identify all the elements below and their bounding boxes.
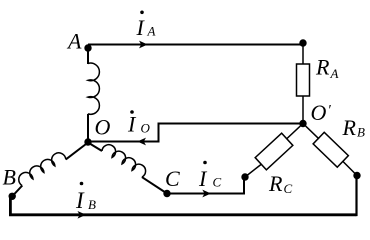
coil (winding) phase A xyxy=(88,63,99,114)
node O xyxy=(84,138,91,145)
svg-text:O: O xyxy=(311,100,327,125)
coil (winding) phase C with stubs xyxy=(88,143,167,194)
label R_B xyxy=(342,115,366,140)
svg-text:A: A xyxy=(66,29,82,54)
label I_O with dot xyxy=(127,110,151,136)
svg-text:O: O xyxy=(95,115,111,140)
svg-text:C: C xyxy=(165,166,180,191)
label I_C with dot xyxy=(198,161,222,191)
svg-text:R: R xyxy=(342,115,357,140)
wire B to bottom rail xyxy=(10,196,356,215)
svg-text:B: B xyxy=(3,165,16,190)
node R_B bottom xyxy=(353,172,360,179)
wire R_A to O' xyxy=(302,96,304,124)
node B xyxy=(9,193,16,200)
label R_C xyxy=(268,171,293,196)
coil (winding) phase B with stubs xyxy=(12,143,88,197)
svg-text:R: R xyxy=(268,171,283,196)
arrow I_A xyxy=(139,41,148,49)
node O' xyxy=(299,120,306,127)
label I_A with dot xyxy=(136,11,156,41)
node C xyxy=(163,190,170,197)
wire A to coil xyxy=(87,48,89,64)
arrow I_B xyxy=(78,211,87,219)
arrow I_C xyxy=(202,190,211,198)
node A xyxy=(84,44,91,51)
svg-text:C: C xyxy=(213,175,222,190)
svg-text:B: B xyxy=(88,197,96,212)
svg-text:A: A xyxy=(330,66,339,81)
wire R_B bottom to rail xyxy=(355,176,357,216)
node top-right xyxy=(299,39,306,46)
wire top (A to right node) xyxy=(88,44,303,46)
svg-text:C: C xyxy=(284,181,293,196)
resistor R_A xyxy=(297,64,310,96)
wire top node to R_A xyxy=(302,43,304,64)
svg-text:I: I xyxy=(75,188,85,213)
svg-text:R: R xyxy=(315,55,330,80)
svg-text:O: O xyxy=(141,121,151,136)
node R_C bottom xyxy=(241,173,248,180)
wire I_O (O' to O) xyxy=(88,124,303,142)
label R_A xyxy=(315,55,339,82)
wire C to R_C bottom xyxy=(167,177,244,194)
resistor R_C (diagonal) xyxy=(245,124,303,178)
arrow I_O (pointing left) xyxy=(137,138,146,146)
svg-text:A: A xyxy=(147,24,156,39)
label I_B with dot xyxy=(75,182,96,213)
svg-text:B: B xyxy=(357,125,365,140)
wire coil A to O xyxy=(87,114,89,142)
resistor R_B (diagonal) xyxy=(303,124,357,176)
